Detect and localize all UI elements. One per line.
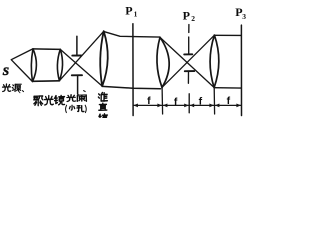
converging/diverging rays through pinhole (X) xyxy=(60,49,102,86)
condenser lens element 2 xyxy=(57,49,62,80)
condenser lens element 1 xyxy=(31,49,36,82)
label zhunzhijing (collimator), vertical, clipped xyxy=(98,93,107,102)
rays L1 to L2 crossing at P2 xyxy=(160,37,214,87)
label guanglan (aperture) xyxy=(67,95,76,102)
collimator lens xyxy=(100,31,108,86)
svg-text:f: f xyxy=(227,95,231,107)
dimension arrowheads xyxy=(133,104,138,108)
filter upper blade at P2 xyxy=(188,37,190,54)
ray cone from source to condenser xyxy=(11,49,33,82)
aperture stop lower blade xyxy=(72,74,82,76)
lens L2 axis tick to dimension line xyxy=(213,88,215,114)
aperture stop upper blade xyxy=(76,36,78,55)
wire: collimated beam bottom (collimator to L1) xyxy=(102,86,160,88)
wire: beam between condenser elements (bottom) xyxy=(33,80,60,83)
dimension line f+f+f+f xyxy=(133,104,241,106)
scan speck 2 xyxy=(19,91,20,92)
Fourier plane P2 dashed axis (top dash) xyxy=(188,25,190,33)
wire: output beam bottom (L2 to P3) xyxy=(214,87,241,89)
svg-text:P: P xyxy=(125,4,132,18)
lens L1 xyxy=(157,37,169,87)
lens L1 axis tick to dimension line xyxy=(161,87,164,114)
input plane P1 line xyxy=(132,24,134,116)
svg-text:P: P xyxy=(183,9,190,23)
svg-text:2: 2 xyxy=(191,14,195,23)
output plane P3 line xyxy=(240,25,242,115)
lens L2 xyxy=(210,35,219,88)
wire: collimated beam top (collimator to L1) xyxy=(104,32,160,37)
svg-text:f: f xyxy=(174,96,178,108)
label juguangjing (condenser) xyxy=(34,96,43,106)
filter lower blade at P2 xyxy=(185,70,194,72)
wire: output beam top (L2 to P3) xyxy=(215,34,242,36)
svg-text:f: f xyxy=(147,95,151,107)
svg-text:3: 3 xyxy=(242,12,246,21)
wire: beam between condenser elements (top) xyxy=(33,48,60,51)
svg-text:S: S xyxy=(3,66,9,78)
svg-text:f: f xyxy=(199,95,203,107)
label (xiaokong) (pinhole) xyxy=(66,105,67,112)
svg-text:1: 1 xyxy=(134,9,138,18)
label guangyuan (light source) xyxy=(3,84,11,92)
scan speck xyxy=(84,90,86,93)
P2 axis tick to dimension line xyxy=(188,94,190,113)
